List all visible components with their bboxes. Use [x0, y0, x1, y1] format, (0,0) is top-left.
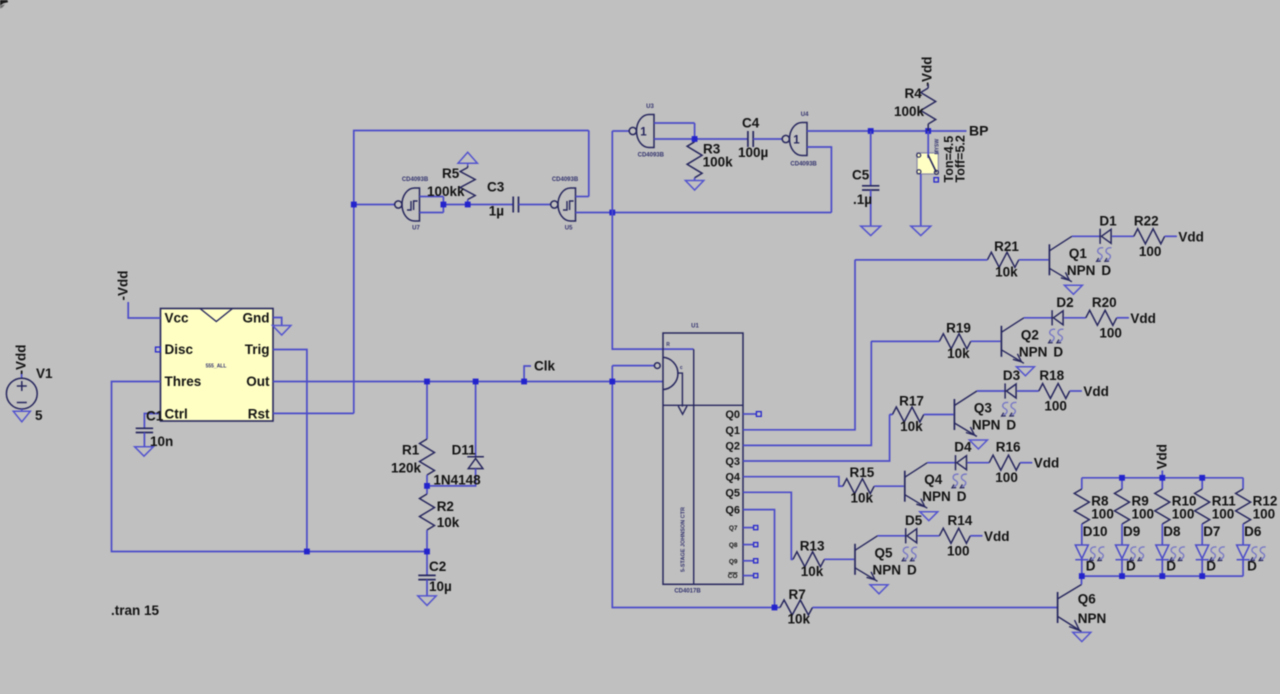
- svg-text:D11: D11: [452, 443, 477, 458]
- svg-text:C5: C5: [852, 168, 870, 183]
- svg-text:U4: U4: [801, 112, 809, 118]
- svg-text:D9: D9: [1123, 524, 1140, 539]
- svg-text:U1: U1: [691, 324, 699, 330]
- svg-text:R5: R5: [442, 166, 460, 181]
- svg-text:V1: V1: [36, 366, 53, 381]
- svg-text:R20: R20: [1092, 295, 1117, 310]
- svg-text:D5: D5: [905, 513, 923, 528]
- svg-text:5-STAGE JOHNSON CTR: 5-STAGE JOHNSON CTR: [681, 507, 687, 572]
- svg-text:Vdd: Vdd: [1034, 456, 1060, 471]
- svg-text:R14: R14: [948, 513, 973, 528]
- svg-text:D4: D4: [954, 440, 972, 455]
- svg-text:BP: BP: [969, 123, 988, 139]
- svg-text:MYSW: MYSW: [935, 139, 941, 155]
- svg-text:D1: D1: [1099, 213, 1117, 228]
- svg-text:NPN: NPN: [922, 489, 951, 504]
- svg-text:10k: 10k: [851, 491, 874, 506]
- svg-text:10k: 10k: [900, 419, 923, 434]
- svg-text:Q7: Q7: [729, 525, 738, 532]
- svg-text:U3: U3: [646, 104, 654, 110]
- svg-text:C1: C1: [146, 409, 164, 424]
- svg-text:Clk: Clk: [534, 359, 556, 374]
- svg-text:C3: C3: [487, 180, 505, 195]
- svg-text:Vdd: Vdd: [1155, 444, 1170, 470]
- svg-text:D: D: [907, 562, 917, 577]
- svg-text:Q2: Q2: [1021, 327, 1039, 342]
- svg-text:R2: R2: [437, 499, 454, 514]
- svg-text:10n: 10n: [150, 434, 173, 449]
- svg-text:100: 100: [995, 470, 1018, 485]
- svg-text:R17: R17: [899, 394, 924, 409]
- svg-text:100k: 100k: [703, 155, 734, 170]
- svg-text:Q2: Q2: [725, 440, 740, 452]
- svg-text:R4: R4: [905, 86, 923, 101]
- svg-text:Q8: Q8: [729, 542, 738, 549]
- svg-text:D: D: [1006, 418, 1016, 433]
- svg-text:100: 100: [1253, 507, 1276, 522]
- svg-text:R22: R22: [1134, 213, 1159, 228]
- svg-text:100: 100: [1132, 507, 1155, 522]
- svg-text:Out: Out: [246, 374, 270, 389]
- svg-text:Q1: Q1: [725, 425, 740, 437]
- svg-text:CD4093B: CD4093B: [638, 153, 665, 159]
- svg-text:10µ: 10µ: [429, 579, 452, 594]
- svg-text:CD4017B: CD4017B: [674, 589, 701, 595]
- svg-text:Vdd: Vdd: [1130, 311, 1156, 326]
- svg-text:Q3: Q3: [725, 456, 740, 468]
- svg-text:.1µ: .1µ: [853, 192, 872, 207]
- svg-text:C4: C4: [742, 116, 760, 131]
- svg-text:Q9: Q9: [729, 558, 738, 565]
- svg-text:NPN: NPN: [972, 418, 1001, 433]
- svg-text:D7: D7: [1203, 524, 1220, 539]
- svg-text:CD4093B: CD4093B: [402, 177, 429, 183]
- svg-text:NPN: NPN: [873, 562, 902, 577]
- svg-text:D3: D3: [1003, 368, 1021, 383]
- svg-text:Disc: Disc: [165, 342, 194, 357]
- svg-text:100µ: 100µ: [738, 145, 768, 160]
- svg-text:NPN: NPN: [1067, 263, 1096, 278]
- svg-text:Q1: Q1: [1069, 246, 1088, 261]
- svg-text:10k: 10k: [995, 264, 1018, 279]
- svg-text:100k: 100k: [894, 104, 925, 119]
- svg-text:120k: 120k: [391, 461, 422, 476]
- svg-text:-Vdd: -Vdd: [920, 57, 935, 87]
- svg-text:100: 100: [1212, 507, 1235, 522]
- svg-text:R7: R7: [789, 587, 806, 602]
- svg-text:10k: 10k: [437, 515, 460, 530]
- svg-text:Q0: Q0: [725, 409, 740, 421]
- svg-text:D6: D6: [1244, 524, 1262, 539]
- svg-text:1: 1: [793, 135, 800, 147]
- svg-text:R15: R15: [850, 465, 875, 480]
- svg-text:Q6: Q6: [725, 505, 740, 517]
- svg-text:Vcc: Vcc: [165, 311, 190, 326]
- svg-text:U7: U7: [412, 226, 420, 232]
- svg-text:D: D: [1053, 344, 1063, 359]
- svg-text:R19: R19: [946, 320, 971, 335]
- svg-text:100kk: 100kk: [427, 184, 465, 199]
- svg-text:100: 100: [1172, 507, 1195, 522]
- svg-text:10k: 10k: [788, 612, 811, 627]
- svg-text:100: 100: [947, 543, 970, 558]
- svg-text:-Vdd: -Vdd: [14, 345, 29, 375]
- svg-text:100: 100: [1139, 244, 1162, 259]
- svg-text:R13: R13: [800, 538, 825, 553]
- svg-text:NPN: NPN: [1078, 611, 1107, 626]
- svg-text:R: R: [666, 342, 670, 348]
- svg-text:Q4: Q4: [725, 472, 741, 484]
- svg-text:Q4: Q4: [924, 472, 943, 487]
- svg-text:D: D: [1101, 263, 1111, 278]
- svg-text:-Vdd: -Vdd: [116, 271, 131, 301]
- svg-text:D2: D2: [1056, 295, 1073, 310]
- svg-text:c: c: [680, 365, 683, 371]
- svg-text:10k: 10k: [801, 564, 824, 579]
- svg-text:Gnd: Gnd: [243, 311, 270, 326]
- svg-text:Trig: Trig: [245, 342, 270, 357]
- svg-text:R21: R21: [994, 239, 1019, 254]
- svg-text:Toff=5.2: Toff=5.2: [953, 135, 967, 182]
- svg-text:C2: C2: [429, 559, 446, 574]
- svg-text:R18: R18: [1039, 368, 1064, 383]
- svg-text:.tran 15: .tran 15: [111, 603, 160, 618]
- svg-text:Rst: Rst: [248, 407, 270, 422]
- svg-text:D8: D8: [1163, 524, 1181, 539]
- svg-text:CO: CO: [728, 573, 738, 580]
- svg-text:100: 100: [1044, 399, 1067, 414]
- svg-text:U5: U5: [565, 226, 573, 232]
- svg-text:Vdd: Vdd: [1178, 229, 1204, 244]
- svg-text:10k: 10k: [947, 346, 970, 361]
- svg-text:Q3: Q3: [974, 401, 993, 416]
- svg-text:Q6: Q6: [1078, 592, 1097, 607]
- svg-text:CD4093B: CD4093B: [552, 177, 579, 183]
- svg-text:Q5: Q5: [875, 545, 894, 560]
- svg-text:100: 100: [1099, 325, 1122, 340]
- svg-text:CD4093B: CD4093B: [790, 162, 817, 168]
- svg-text:R1: R1: [402, 443, 420, 458]
- svg-text:1: 1: [640, 127, 647, 139]
- svg-text:Thres: Thres: [165, 374, 202, 389]
- svg-text:D: D: [957, 489, 967, 504]
- svg-text:1N4148: 1N4148: [433, 472, 481, 487]
- svg-text:5: 5: [35, 408, 43, 423]
- svg-text:Vdd: Vdd: [984, 529, 1010, 544]
- svg-text:1µ: 1µ: [489, 204, 504, 219]
- svg-text:555_ALL: 555_ALL: [206, 364, 227, 370]
- svg-text:Q5: Q5: [725, 487, 740, 499]
- svg-text:R16: R16: [996, 440, 1021, 455]
- svg-text:NPN: NPN: [1019, 344, 1048, 359]
- svg-text:D10: D10: [1083, 524, 1108, 539]
- svg-text:100: 100: [1091, 507, 1114, 522]
- svg-text:Ctrl: Ctrl: [165, 407, 188, 422]
- svg-text:Vdd: Vdd: [1083, 384, 1109, 399]
